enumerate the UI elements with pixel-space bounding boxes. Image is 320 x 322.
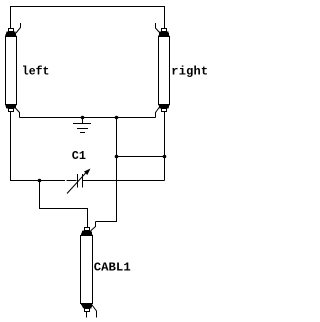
wire left line bottom lead down to node — [11, 112, 66, 181]
node dot junction shield riser / cross link — [115, 155, 119, 159]
svg-text:C1: C1 — [72, 149, 86, 163]
pin stub CABL1 top shield — [91, 222, 96, 231]
pin stub left line top shield — [16, 23, 21, 33]
transmission line left — [5, 29, 17, 112]
node dot junction ground bus / shield riser — [115, 116, 119, 120]
wire branch node to CABL1 top — [40, 181, 88, 228]
node dot junction right lead / cross link — [163, 155, 167, 159]
wire top bus from left line to right line — [11, 7, 165, 29]
svg-text:CABL1: CABL1 — [94, 261, 131, 275]
wire C1 right lead to right line — [83, 180, 165, 182]
svg-text:right: right — [171, 65, 208, 79]
wire ground bus — [20, 117, 156, 119]
wire C1 left lead — [67, 180, 77, 182]
wire shield riser from ground bus down to CABL1 stub — [96, 118, 117, 222]
ground — [73, 118, 91, 133]
svg-text:left: left — [22, 66, 50, 79]
wire CABL1 bottom center lead — [86, 312, 88, 318]
transmission line right — [159, 29, 170, 112]
pin stub right line top shield — [156, 23, 160, 33]
node dot junction ground bus / ground — [81, 116, 85, 120]
pin stub CABL1 bottom shield — [92, 305, 97, 318]
wire right line bottom lead — [164, 112, 166, 181]
wire cross link between verticals — [117, 156, 165, 158]
capacitor C1 (variable) — [67, 169, 91, 194]
pin stub right line bottom shield — [156, 107, 160, 118]
node dot junction left lead / CABL1 branch — [38, 179, 42, 183]
pin stub left line bottom shield — [15, 107, 20, 118]
transmission line CABL1 — [81, 228, 93, 312]
